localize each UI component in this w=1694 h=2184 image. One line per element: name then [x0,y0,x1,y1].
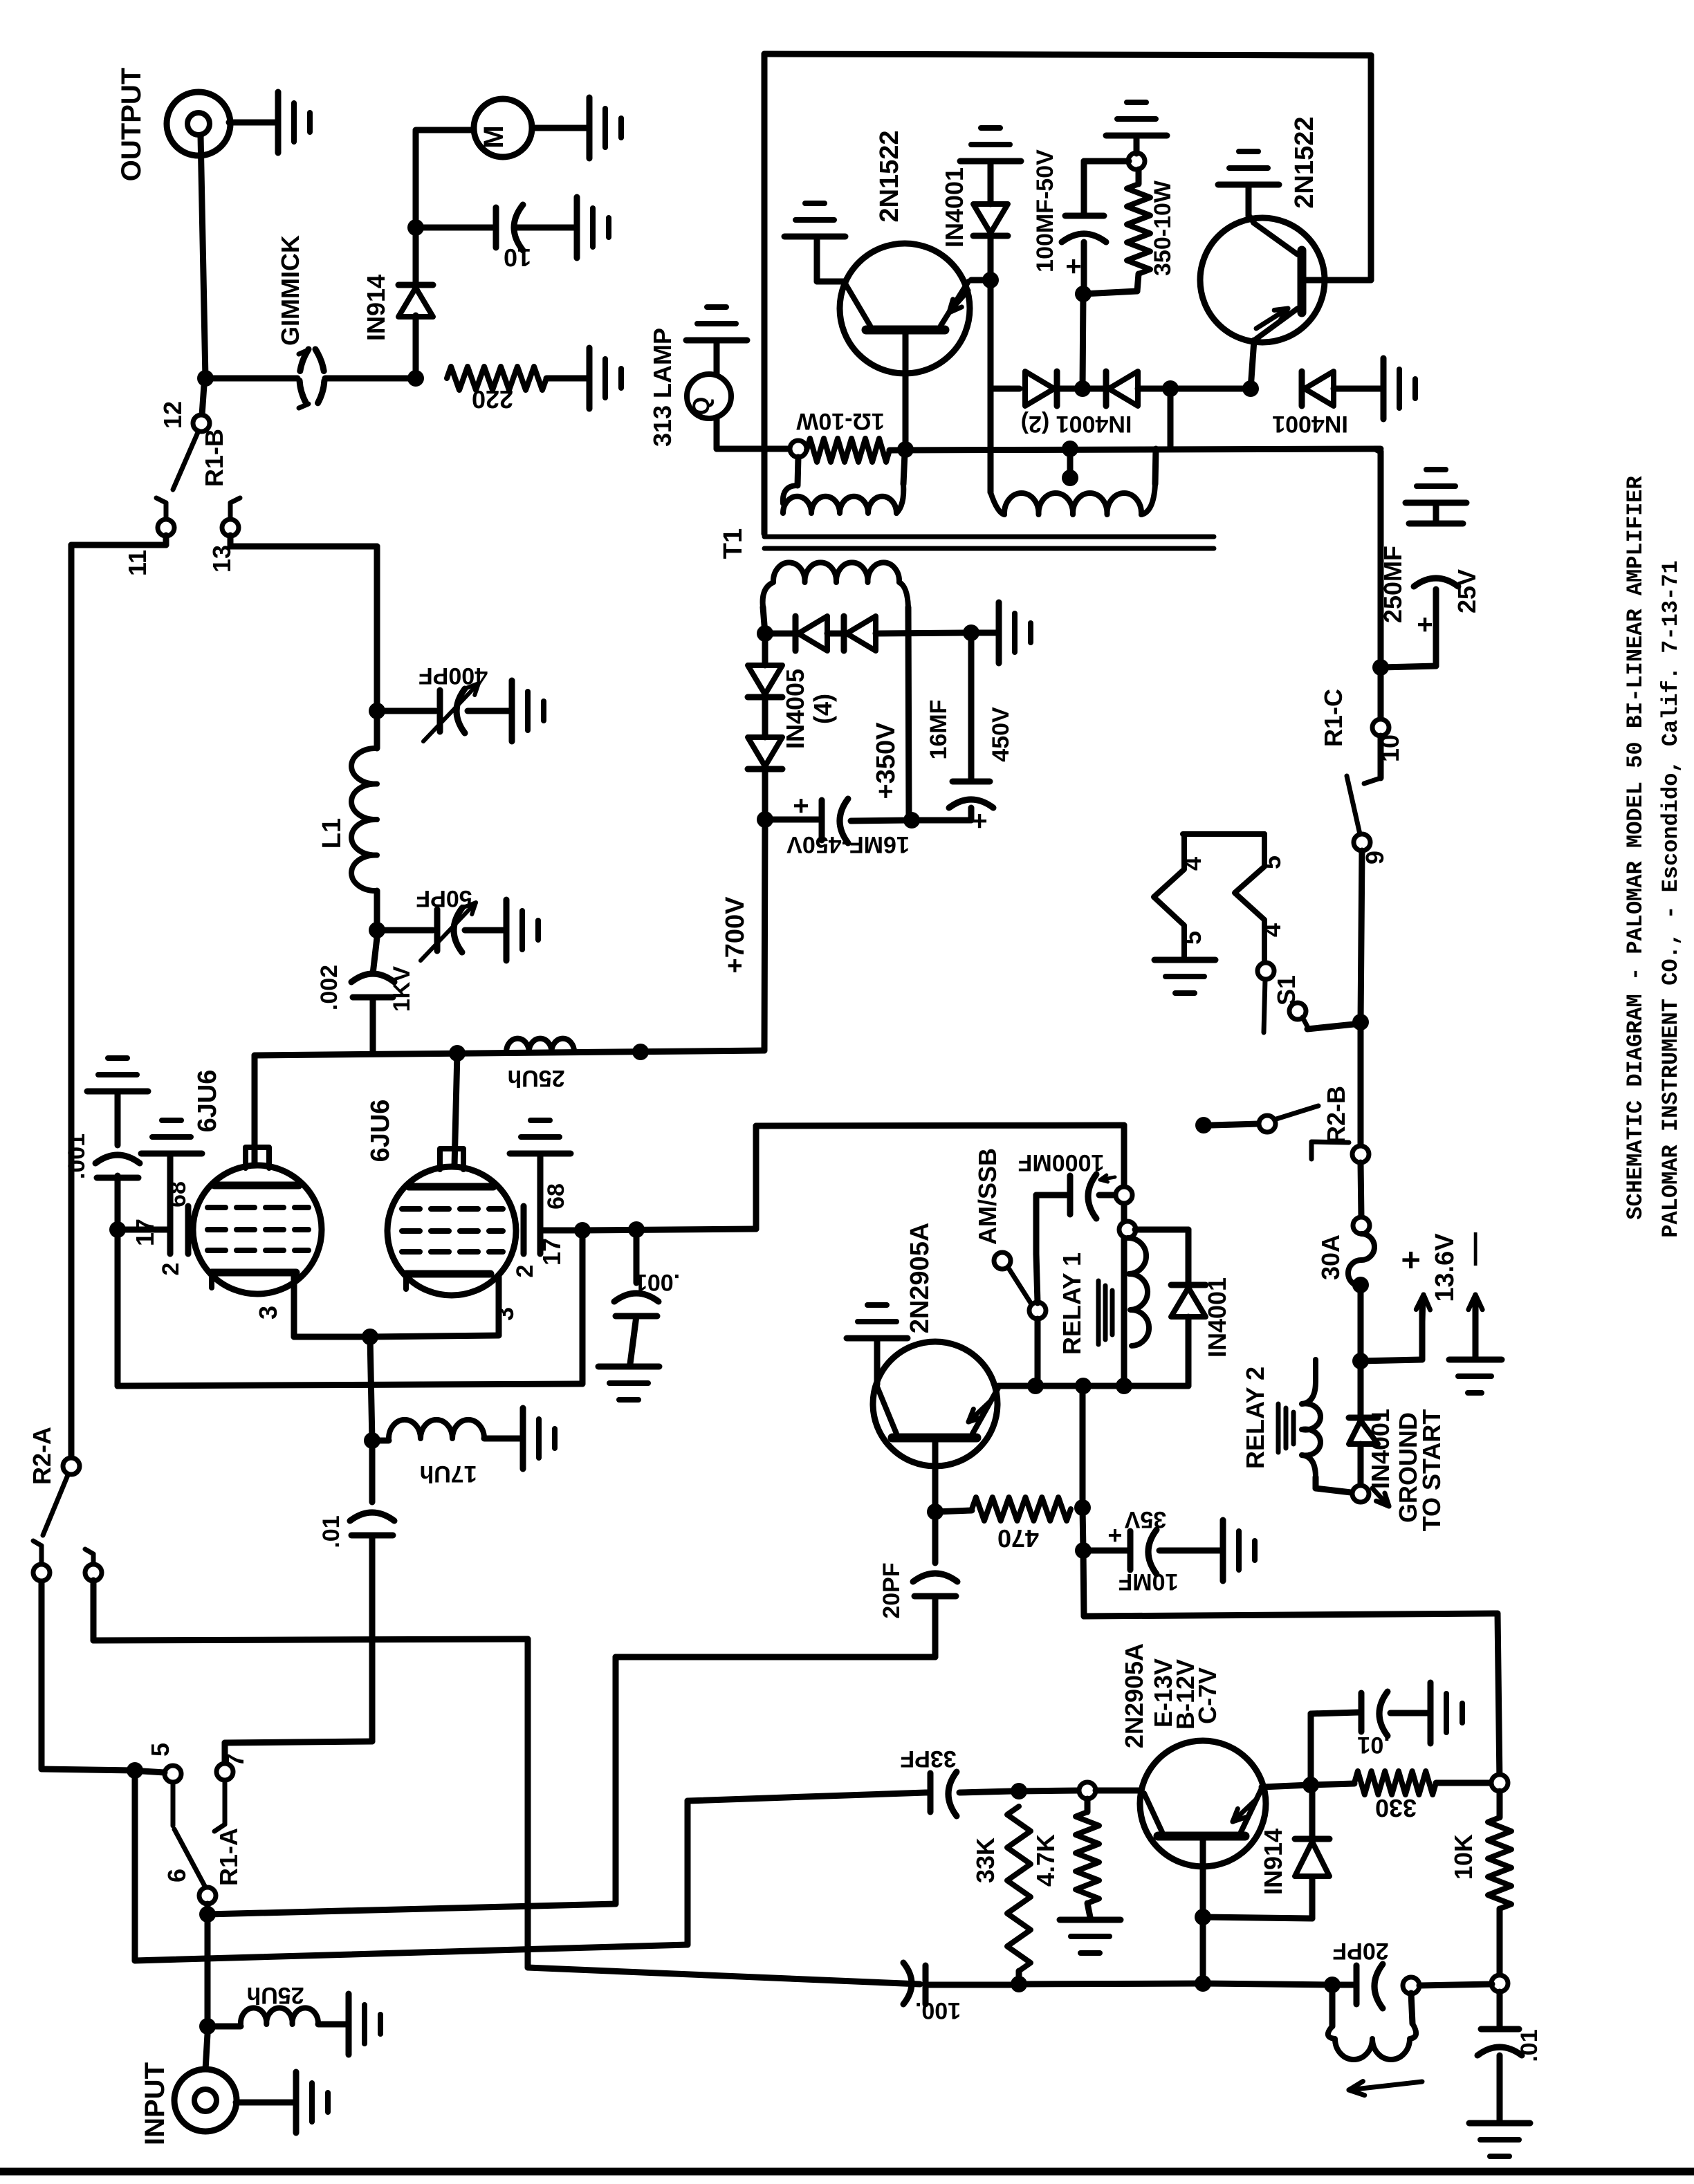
capacitor 20PF out [1340,1982,1354,1988]
node [1075,1542,1092,1559]
svg-text:R2-B: R2-B [1322,1086,1350,1144]
svg-text:IN4001: IN4001 [1366,1409,1394,1489]
capacitor 16MF 450V b [968,633,975,780]
ground [1428,1683,1434,1743]
svg-text:1KV: 1KV [389,966,415,1012]
wire 11 to left bus [163,535,169,545]
ground [847,1335,908,1342]
wire to meter [413,131,419,235]
wire RF bus to 20PF [208,1904,616,1914]
node cathodes [362,1329,378,1345]
fuse 30A [1348,1234,1374,1286]
ground [1381,358,1387,419]
svg-text:+700V: +700V [721,896,750,974]
node [364,1432,380,1449]
svg-text:68: 68 [543,1183,569,1210]
wire [532,125,587,131]
capacitor GIMMICK [300,349,309,407]
node [927,1503,943,1520]
diode IN4001 (2) b [1060,386,1105,392]
wire grid bus [115,1230,121,1386]
contact 13 [228,503,233,520]
lamp 313 [687,374,731,418]
switch R2-B [1195,1117,1212,1133]
wire lamp down [714,418,720,449]
capacitor 10MF 35V [1083,1548,1127,1554]
svg-text:68: 68 [165,1181,191,1207]
wire Q2 base [1302,277,1371,284]
node [1116,1378,1132,1394]
capacitor 20PF [932,1512,939,1563]
inductor 25Uh plate choke [506,1039,574,1052]
node [407,219,424,236]
winding HV secondary [763,607,765,633]
wire Q1 base to ground [817,279,845,285]
wire tube1 cathode [291,1274,297,1337]
ground [996,602,1002,663]
svg-text:RELAY 1: RELAY 1 [1058,1252,1086,1355]
node [757,625,773,642]
wire +700V [764,820,765,1051]
svg-text:+: + [1393,1250,1430,1270]
diode IN914 keyer [1203,1917,1312,1918]
svg-text:IN914: IN914 [1259,1829,1287,1895]
svg-text:.01: .01 [318,1515,344,1548]
svg-text:25Uh: 25Uh [507,1065,564,1091]
capacitor 33PF [926,1790,928,1796]
svg-text:6JU6: 6JU6 [366,1100,395,1163]
svg-text:330: 330 [1375,1794,1417,1822]
svg-text:11: 11 [123,550,151,576]
switch wafer 4-5 left [1183,831,1264,837]
svg-text:6: 6 [163,1869,191,1882]
ground [574,197,580,258]
svg-text:17: 17 [537,1238,566,1266]
relay 1 bus [1121,1125,1127,1386]
connector J1 INPUT [205,2034,208,2070]
svg-text:+: + [793,790,809,821]
wire [229,120,277,126]
svg-text:313 LAMP: 313 LAMP [648,328,676,447]
diode IN4001 relay1 [1135,1227,1188,1233]
node [449,1045,466,1062]
svg-text:16MF-450V: 16MF-450V [786,831,910,858]
connector J2 OUTPUT [167,92,230,156]
contact 11 [164,503,169,520]
svg-text:R1-A: R1-A [214,1828,243,1886]
svg-text:220: 220 [472,385,513,414]
node [1074,380,1091,397]
diode IN4001 c [1299,371,1305,406]
svg-text:SCHEMATIC DIAGRAM - PALOMAR MO: SCHEMATIC DIAGRAM - PALOMAR MODEL 50 BI-… [1623,476,1648,1220]
node input [199,2018,216,2035]
wire row649 corner down [1375,449,1381,452]
node ground-to-start [1352,1486,1369,1502]
wire tube2 cathode [496,1275,502,1335]
capacitor 50PF variable [385,927,433,934]
node [1074,1499,1091,1516]
ground [1106,133,1167,139]
node [1162,380,1179,397]
svg-text:1Ω-10W: 1Ω-10W [795,408,884,434]
resistor 10K [1497,1791,1503,1817]
ground [1469,2120,1530,2127]
resistor 4.7K [1085,1799,1091,1812]
ground [509,681,515,741]
svg-text:2N2905A: 2N2905A [1120,1643,1148,1748]
winding LV secondary [988,389,994,492]
svg-text:+: + [1417,609,1433,640]
capacitor 400PF variable [385,708,436,714]
svg-text:+: + [1065,251,1081,281]
svg-text:12: 12 [158,401,187,429]
svg-text:AM/SSB: AM/SSB [973,1148,1002,1245]
svg-text:C-7V: C-7V [1193,1667,1222,1724]
svg-text:.001: .001 [634,1269,680,1295]
svg-text:25V: 25V [1453,569,1481,613]
capacitor 68 tube2 grid [542,1228,576,1234]
svg-text:R2-A: R2-A [28,1427,56,1485]
wire base [932,1441,939,1512]
tube plate bar [214,1182,299,1190]
node [1075,1378,1092,1394]
node [903,812,920,829]
svg-text:2N2905A: 2N2905A [905,1223,935,1334]
svg-text:+: + [971,806,987,836]
node [369,922,385,938]
svg-text:Q: Q [688,397,715,415]
wire drop to row649 [1168,389,1174,449]
svg-text:RELAY 2: RELAY 2 [1241,1367,1269,1469]
node [1302,1777,1319,1793]
capacitor .01 [369,1441,376,1502]
svg-text:3: 3 [254,1306,282,1320]
inductor L1 [374,711,380,748]
node [1011,1783,1027,1799]
svg-text:5: 5 [1178,931,1206,945]
node main 12V [1352,1353,1369,1369]
svg-text:2N1522: 2N1522 [1290,116,1319,208]
switch R1-B [202,385,204,415]
ground [587,348,593,409]
svg-text:IN4001: IN4001 [1203,1277,1231,1358]
svg-text:1000MF: 1000MF [1018,1149,1105,1176]
switch R1-C [1372,719,1389,736]
contact 7 [217,1764,233,1780]
switch R2-A [63,1458,80,1474]
svg-text:10MF: 10MF [1118,1568,1179,1595]
wire Q2 collector [1251,340,1254,389]
ground [520,1408,526,1469]
capacitor 100MF-50V [1084,158,1129,165]
relay 1 coil [1127,1238,1149,1346]
capacitor 68 tube1 grid [125,1227,169,1233]
wire tube1 plate lead [252,1055,258,1165]
svg-text:OUTPUT: OUTPUT [116,68,147,181]
winding primary feedback [798,457,798,485]
svg-text:100MF-50V: 100MF-50V [1032,149,1058,272]
resistor 33K [1007,1806,1031,1971]
ground [87,1089,148,1095]
svg-text:30A: 30A [1316,1234,1345,1280]
svg-text:4: 4 [1258,923,1286,937]
meter M [474,99,532,157]
node [1195,1909,1211,1925]
svg-text:2: 2 [512,1265,538,1278]
node [632,1044,649,1060]
node [1242,380,1259,397]
wire [1358,1022,1364,1146]
diode IN4005 d [762,697,768,737]
ground [960,158,1021,165]
wire plate bus [255,1051,764,1055]
ground [1154,957,1215,963]
svg-text:350-10W: 350-10W [1150,180,1176,276]
svg-text:.01: .01 [1357,1732,1390,1758]
svg-text:35V: 35V [1124,1506,1166,1533]
tube top cap [246,1147,269,1168]
svg-text:PALOMAR INSTRUMENT CO., - Esco: PALOMAR INSTRUMENT CO., - Escondido, Cal… [1658,560,1684,1237]
resistor 330 [1311,1784,1354,1785]
ground [293,2072,300,2133]
wire [205,376,297,382]
svg-text:250MF: 250MF [1379,546,1407,623]
node [1062,441,1078,457]
contact hooks [33,1541,42,1546]
svg-text:3: 3 [490,1307,519,1321]
arrow coupling [1349,2082,1422,2090]
svg-text:20PF: 20PF [1332,1938,1388,1964]
switch AM/SSB [994,1252,1011,1269]
svg-text:IN4001 (2): IN4001 (2) [1021,411,1132,437]
svg-text:GIMMICK: GIMMICK [276,235,304,346]
transistor Q5 2N2905A [1096,1788,1142,1794]
capacitor 100 [903,1963,912,2004]
svg-text:17: 17 [131,1219,159,1246]
capacitor .001 grid1 [115,1176,121,1224]
transistor Q4 2N2905A [873,1342,997,1466]
node [127,1762,143,1779]
wire contact6 down [205,1904,211,2026]
svg-text:7: 7 [221,1753,249,1767]
node [1075,286,1092,302]
tube V 6JU6 [387,1167,516,1295]
switch wafer 4-5 right [1235,834,1264,963]
resistor 220 [447,367,546,390]
node [897,441,914,458]
svg-text:IN4005: IN4005 [781,669,809,749]
svg-text:470: 470 [997,1524,1039,1553]
capacitor 1000MF [1036,1254,1038,1303]
tube grids dashed [208,1205,225,1210]
ground [587,98,593,158]
capacitor .001 tube2 [634,1230,640,1283]
wire [988,280,994,389]
svg-text:4: 4 [1178,857,1206,871]
wire contact2 down [91,1580,97,1640]
node [369,703,385,719]
terminal - 13.6V [1473,1300,1479,1358]
svg-text:+350V: +350V [872,722,901,799]
inductor 25Uh input [215,2024,241,2030]
ground [275,92,282,153]
wire base [1200,1839,1206,1917]
node [407,370,424,387]
wire center tap [1067,449,1074,476]
capacitor .01 keyer [1308,1714,1314,1785]
svg-text:R1-B: R1-B [200,429,228,487]
svg-text:10: 10 [504,243,531,272]
node [199,1906,216,1923]
ground [1060,1917,1121,1923]
diode IN4001 relay2 [1349,1415,1378,1421]
ground [784,234,845,240]
wire cathode down [370,1337,372,1441]
svg-text:+: + [1107,1521,1122,1550]
wire output down [201,136,205,378]
diode IN4005 b [827,631,841,637]
wire collector row [998,1383,1188,1389]
svg-text:.001: .001 [64,1133,90,1179]
svg-text:.002: .002 [316,965,342,1010]
wire Q2 emitter ground [1249,216,1253,221]
wire row649 [890,449,1381,450]
terminal + 13.6V [1361,1360,1422,1361]
diode IN4005 a [765,631,793,637]
svg-text:25Uh: 25Uh [246,1982,304,2008]
wire [325,376,416,382]
svg-text:4.7K: 4.7K [1031,1834,1060,1887]
ground [1449,1357,1502,1363]
enclosure box [764,54,1371,55]
diode IN4001 (2) a [991,386,1020,392]
capacitor 16MF-450V a [762,769,768,820]
switch S1 [1258,963,1274,979]
node [1372,659,1389,676]
wire tube2 plate lead [454,1053,457,1166]
diode IN914 [413,315,419,378]
capacitor .01 out [1497,1992,1503,2028]
wire [1019,1790,1079,1791]
transformer T1 core [764,535,1214,539]
wire tube2 grid right [582,1229,756,1230]
resistor 350-10W [1128,153,1145,169]
svg-text:400PF: 400PF [418,663,488,689]
svg-text:M: M [479,125,509,148]
svg-text:5: 5 [1258,855,1286,869]
ground [141,1151,202,1157]
transistor Q1 2N1522 [840,243,970,373]
svg-text:IN914: IN914 [362,275,390,341]
svg-text:IN4001: IN4001 [1272,411,1348,437]
capacitor .002 1KV [373,938,377,974]
svg-text:R1-C: R1-C [1319,689,1347,747]
tube top cap [440,1149,463,1169]
svg-text:(4): (4) [809,694,837,724]
svg-text:16MF: 16MF [926,700,952,760]
node [628,1221,645,1238]
svg-text:.01: .01 [1516,2029,1543,2062]
svg-text:INPUT: INPUT [140,2062,170,2145]
capacitor 250MF 25V [1381,666,1436,667]
resistor 470 [935,1510,972,1512]
svg-text:2N1522: 2N1522 [875,130,904,222]
node [1324,1977,1341,1993]
diode IN4001 q1 [988,236,994,280]
switch R2-B pivot [1352,1146,1369,1163]
node [963,624,979,641]
ground [1220,1520,1226,1581]
svg-text:50PF: 50PF [416,885,472,911]
tube cathode bar [212,1269,296,1277]
node [1352,1277,1369,1293]
node [982,272,999,288]
diode IN4005 c [762,633,768,665]
node grid1 [109,1221,126,1238]
node output junction [197,370,214,387]
node [1195,1975,1211,1992]
wire 13 down [228,535,234,546]
capacitor 10 [422,225,492,231]
ground [1406,500,1466,506]
svg-text:—: — [1455,1232,1492,1266]
inductor 17Uh [380,1438,389,1444]
svg-text:5: 5 [146,1743,174,1757]
ground [686,337,747,344]
wire to contact 7 [225,1741,372,1743]
tube grids dashed [402,1206,420,1212]
svg-text:6JU6: 6JU6 [193,1070,222,1133]
svg-text:20PF: 20PF [878,1562,905,1618]
svg-text:10K: 10K [1449,1834,1477,1880]
wire [236,2100,293,2106]
pickup coil [1329,1992,1336,2026]
node [1352,1014,1369,1030]
contact 6 [199,1887,216,1904]
ground [510,1151,571,1157]
svg-text:100.: 100. [915,1997,961,2024]
wire bias line B [132,1770,138,1961]
svg-text:33K: 33K [971,1838,1000,1883]
svg-text:17Uh: 17Uh [419,1461,477,1487]
node grid2 [574,1222,591,1239]
wire supply feed [1083,1551,1084,1616]
wire left bus to 5 [39,1580,45,1769]
resistor 1ohm-10W [790,441,807,457]
svg-text:T1: T1 [719,528,748,559]
wire 9 down [1361,851,1362,1022]
ground [1218,182,1279,188]
page bottom rule [0,2168,1694,2176]
svg-text:L1: L1 [317,818,347,849]
svg-text:33PF: 33PF [900,1746,956,1772]
svg-text:2: 2 [158,1263,184,1276]
transistor Q2 2N1522 [1200,218,1325,342]
node [1027,1378,1044,1394]
tube plate bar [409,1183,493,1191]
ground [504,900,510,961]
contact 9 [1354,834,1370,851]
node [1011,1976,1027,1992]
svg-text:TO START: TO START [1417,1409,1446,1532]
svg-text:450V: 450V [988,707,1014,762]
relay 2 coil [1302,1360,1316,1404]
ground [346,1994,352,2055]
contact 5 [165,1766,181,1782]
ground [598,1364,659,1370]
node [757,811,773,828]
tube V 6JU6 [193,1165,322,1294]
